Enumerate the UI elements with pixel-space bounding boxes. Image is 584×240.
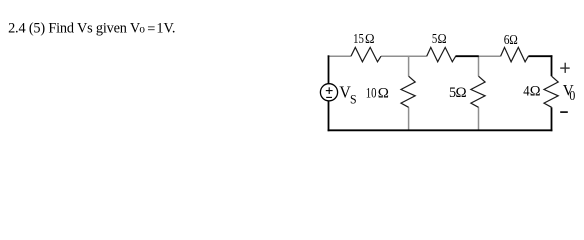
- svg-text:Ω: Ω: [456, 85, 467, 101]
- svg-text:Ω: Ω: [378, 85, 389, 101]
- svg-text:5: 5: [432, 30, 437, 46]
- svg-text:2.4 (5) Find Vs given V: 2.4 (5) Find Vs given V: [8, 21, 141, 37]
- svg-text:0: 0: [569, 87, 575, 103]
- svg-text:Ω: Ω: [509, 32, 518, 47]
- svg-text:Ω: Ω: [530, 83, 541, 99]
- svg-text:0: 0: [139, 25, 145, 34]
- svg-text:Ω: Ω: [365, 30, 375, 46]
- svg-text:15: 15: [353, 30, 364, 46]
- svg-text:10: 10: [366, 84, 377, 101]
- svg-text:1V.: 1V.: [156, 21, 175, 37]
- svg-text:Ω: Ω: [438, 30, 447, 46]
- svg-text:S: S: [350, 92, 357, 106]
- svg-text:=: =: [147, 21, 155, 37]
